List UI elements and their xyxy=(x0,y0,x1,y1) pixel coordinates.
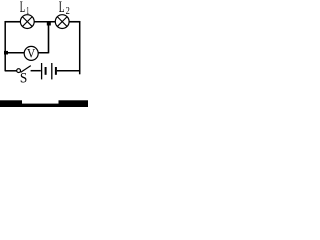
wire top from left corner to lamp L1 xyxy=(5,21,21,23)
node junction dot between lamps xyxy=(47,22,51,26)
svg-text:L: L xyxy=(20,0,25,16)
wire voltmeter riser to junction xyxy=(48,23,50,54)
wire from lamp L2 to top-right corner xyxy=(69,21,80,23)
lamp L2 xyxy=(55,15,69,29)
battery xyxy=(42,63,56,79)
switch S xyxy=(17,66,31,73)
wire voltmeter horizontal branch xyxy=(5,52,49,54)
bottom cropped black band full width xyxy=(0,104,88,107)
wire from battery to bottom-right corner xyxy=(57,70,80,72)
bottom cropped black band right segment xyxy=(59,100,89,107)
wire right vertical xyxy=(79,21,81,74)
lamp L1 xyxy=(20,15,34,29)
svg-text:1: 1 xyxy=(26,6,29,17)
svg-text:L: L xyxy=(59,0,65,16)
voltmeter V xyxy=(24,46,38,61)
bottom cropped black band left segment xyxy=(0,100,22,107)
svg-text:2: 2 xyxy=(66,6,70,17)
wire bottom from left corner to switch xyxy=(5,70,17,72)
svg-text:S: S xyxy=(20,71,27,87)
wire left vertical xyxy=(4,21,6,71)
wire between lamp L1 and lamp L2 xyxy=(34,21,56,23)
node junction dot on left wire xyxy=(4,51,8,55)
wire from switch to battery xyxy=(31,70,41,72)
svg-text:V: V xyxy=(27,46,36,61)
